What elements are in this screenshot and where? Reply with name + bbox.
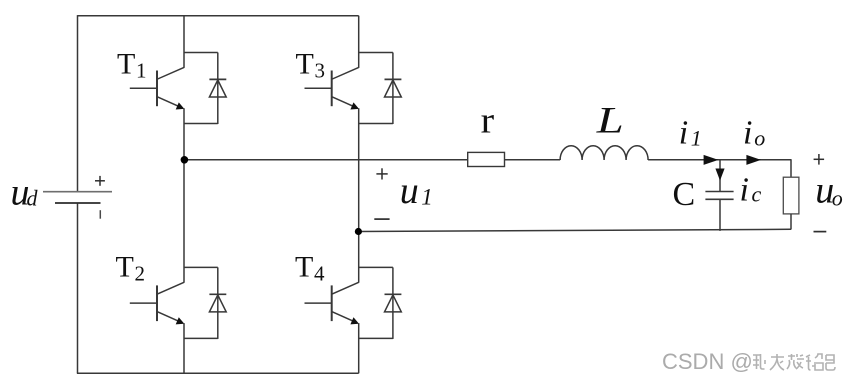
wire T3 cell bottom branch <box>359 123 393 125</box>
node a junction dot <box>181 156 189 164</box>
battery plus sign <box>95 176 105 186</box>
svg-text:1: 1 <box>136 59 147 83</box>
svg-text:T: T <box>296 47 314 80</box>
load resistor body <box>783 177 799 214</box>
wire resistor to inductor <box>505 159 561 161</box>
wire T4 emitter down to bottom rail <box>358 323 360 373</box>
wire right drop to load <box>790 159 792 177</box>
svg-text:o: o <box>832 185 843 210</box>
wire T2 cell top branch <box>184 266 218 268</box>
svg-text:d: d <box>27 185 39 210</box>
wire bottom DC rail <box>77 372 359 374</box>
svg-text:o: o <box>754 126 765 151</box>
diode D3 (antiparallel with T3) <box>385 53 402 125</box>
wire top DC rail <box>78 15 359 17</box>
diode D1 (antiparallel with T1) <box>209 53 226 125</box>
label u1 <box>400 170 433 212</box>
label io <box>743 114 765 151</box>
capacitor C top plate <box>705 191 733 193</box>
transistor T3 <box>305 67 360 109</box>
label ud <box>11 172 39 214</box>
battery u_d positive plate <box>43 191 112 193</box>
arrow ic on capacitor branch <box>715 169 724 181</box>
wire left DC rail upper <box>77 15 79 191</box>
svg-text:L: L <box>595 101 623 142</box>
wire T2 emitter down to bottom rail <box>183 323 185 373</box>
wire T1 leg upper (collector) <box>183 16 185 68</box>
wire load bottom drop <box>790 214 792 230</box>
label T2 <box>116 250 146 285</box>
wire T4 leg upper (node b to collector) <box>358 232 360 283</box>
svg-text:r: r <box>481 101 495 142</box>
svg-text:1: 1 <box>691 126 702 151</box>
wire left DC rail lower <box>77 203 79 373</box>
svg-text:i: i <box>743 114 752 151</box>
svg-text:C: C <box>673 176 696 213</box>
label uo <box>815 170 842 212</box>
svg-text:T: T <box>116 250 134 283</box>
wire capacitor branch lower <box>719 199 721 231</box>
svg-text:u: u <box>400 170 419 212</box>
wire T3 cell top branch <box>359 52 393 54</box>
transistor T2 <box>130 282 185 324</box>
wire T4 cell top branch <box>359 266 393 268</box>
transistor T4 <box>305 282 360 324</box>
label T4 <box>295 250 325 285</box>
diode D2 (antiparallel with T2) <box>209 267 226 339</box>
wire T4 cell bottom branch <box>359 337 393 339</box>
arrow i1 on wire <box>704 155 719 165</box>
transistor T1 <box>130 67 185 109</box>
inductor L coil <box>560 146 648 160</box>
wire capacitor branch upper <box>719 160 721 192</box>
wire upper output line (node a to resistor r) <box>184 159 468 161</box>
battery minus sign (rotated tick) <box>99 210 101 219</box>
label T1 <box>117 47 147 82</box>
svg-text:CSDN @: CSDN @ <box>662 349 753 374</box>
label i1 <box>679 114 702 151</box>
svg-text:1: 1 <box>421 185 433 210</box>
wire T3 emitter down through node b <box>358 108 360 231</box>
wire T1 cell bottom branch <box>184 123 218 125</box>
resistor r body <box>468 152 505 166</box>
battery u_d negative plate <box>55 202 101 204</box>
svg-text:c: c <box>752 181 762 206</box>
svg-text:2: 2 <box>135 262 146 286</box>
minus sign of uo <box>814 231 827 233</box>
wire T2 leg upper (node a to collector) <box>183 160 185 283</box>
wire T1 emitter down to node a <box>183 108 185 160</box>
svg-text:i: i <box>679 114 688 151</box>
arrow io on wire <box>746 155 761 165</box>
plus sign of u1 <box>376 168 387 179</box>
watermark CJK glyphs (stylized) <box>753 354 835 370</box>
svg-text:T: T <box>295 250 313 283</box>
wire T1 cell top branch <box>184 52 218 54</box>
svg-text:4: 4 <box>314 262 325 286</box>
node b junction dot <box>355 228 362 235</box>
svg-text:i: i <box>740 171 749 208</box>
label T3 <box>296 47 326 82</box>
svg-text:3: 3 <box>315 59 326 83</box>
label ic <box>740 171 762 208</box>
wire T2 cell bottom branch <box>184 337 218 339</box>
svg-text:T: T <box>117 47 135 80</box>
wire lower output line (node b to load) <box>359 229 791 231</box>
capacitor C bottom plate <box>705 198 733 200</box>
plus sign of uo <box>814 154 825 165</box>
minus sign of u1 <box>374 218 389 220</box>
wire T3 leg upper (collector) <box>358 16 360 68</box>
diode D4 (antiparallel with T4) <box>385 267 402 339</box>
wire inductor to load corner <box>648 159 791 161</box>
